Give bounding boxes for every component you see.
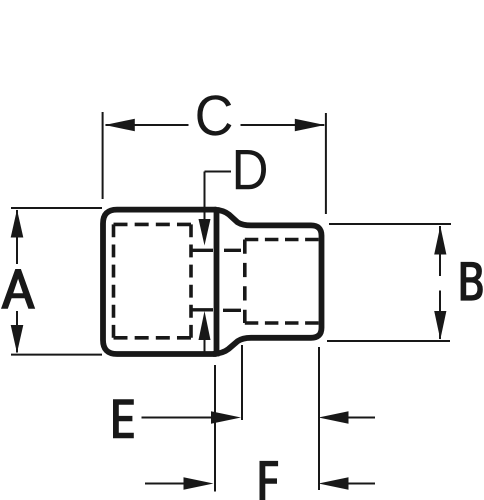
dimension A: down arrowhead — [11, 325, 24, 353]
dimension B: lower shaft — [439, 291, 441, 340]
dimension D: up arrowhead at hole bottom — [199, 311, 211, 340]
dimension D: leader vertical shaft — [204, 172, 206, 222]
dimension E: shaft from letter to arrow — [142, 417, 214, 419]
hidden bore: right inner dashed square, left edge — [243, 240, 247, 324]
dimension letter A — [1, 269, 35, 309]
dimension E: right-side shaft outside — [347, 417, 375, 419]
dimension E: left-pointing arrowhead at right end — [319, 411, 349, 424]
dimension B: up arrowhead — [434, 226, 446, 255]
dimension A: top extension line — [11, 207, 102, 209]
dimension letter C — [197, 95, 231, 135]
dimension D: leader horizontal — [205, 171, 232, 173]
dimension C: right extension line — [325, 113, 327, 214]
dimension F: extension line at face — [214, 365, 216, 492]
hidden bore: left inner dashed square, right edge — [189, 224, 193, 337]
part face line between large and small sections — [214, 207, 220, 356]
dimension F: left-pointing arrowhead at right end — [319, 477, 349, 490]
dimension D: down arrowhead at hole top — [199, 219, 211, 246]
dimension F: right-side shaft outside — [347, 483, 375, 485]
dimension A: upper shaft — [16, 210, 18, 264]
dimension A: lower shaft — [16, 311, 18, 353]
dimension B: top extension line — [329, 223, 451, 225]
dimension F: extension line at right end — [318, 347, 320, 490]
dimension letter E — [113, 399, 134, 438]
dimension F: right-pointing arrowhead at face line — [184, 477, 214, 490]
hidden bore: right inner dashed square, top edge — [245, 238, 319, 242]
part outline: taper and small body (right) — [213, 210, 322, 354]
dimension C: left shaft — [106, 124, 189, 126]
part outline: left large body (rounded) — [103, 210, 217, 354]
dimension letter B — [461, 262, 483, 301]
hidden bore: left inner dashed square, bottom edge — [114, 336, 192, 340]
hidden bore: right inner dashed square, bottom edge — [245, 321, 319, 325]
dimension letter D — [236, 150, 266, 189]
dimension B: bottom extension line — [327, 340, 450, 342]
dimension C: left arrowhead — [105, 119, 135, 132]
dimension C: right arrowhead — [295, 119, 325, 132]
drive square hole: hidden dash right of face, bottom — [223, 309, 241, 312]
dimension F: left shaft — [145, 483, 184, 485]
dimension letter F — [260, 461, 279, 500]
dimension B: down arrowhead — [434, 311, 446, 340]
dimension B: upper shaft — [439, 226, 441, 276]
drive square hole: hidden dash right of face, top — [224, 249, 241, 252]
drive square hole: visible bottom edge through opening — [193, 308, 214, 311]
dimension A: bottom extension line — [11, 354, 102, 356]
hidden bore: left inner dashed square, left edge — [112, 224, 116, 337]
hidden bore: left inner dashed square, top edge — [114, 223, 192, 227]
dimension E: right-pointing arrowhead at taper line — [211, 411, 241, 424]
dimension E: extension line at taper end — [241, 345, 243, 420]
dimension A: up arrowhead — [11, 210, 24, 238]
dimension C: left extension line — [102, 112, 104, 199]
dimension D: lower arrow shaft — [204, 339, 206, 353]
drive square hole: visible top edge through opening — [193, 249, 214, 252]
dimension C: right shaft — [241, 124, 325, 126]
